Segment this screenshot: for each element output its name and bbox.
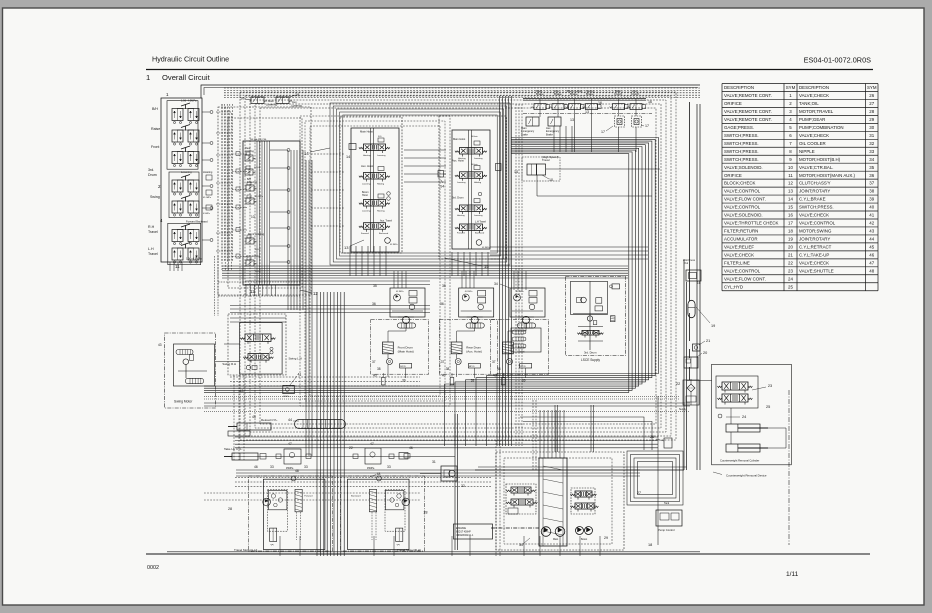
bank12 sol 4 [246, 198, 254, 204]
item 44 capsule [295, 420, 346, 429]
svg-text:Swing R.H: Swing R.H [222, 362, 236, 366]
dashed verticals below swing [233, 375, 235, 460]
boom hoist motor circle [518, 316, 534, 318]
svg-text:38: 38 [497, 367, 501, 371]
long bottom double line [167, 551, 700, 553]
svg-text:VALVE;CHECK: VALVE;CHECK [724, 252, 754, 257]
svg-text:43: 43 [158, 343, 162, 347]
svg-text:21: 21 [706, 339, 710, 343]
Travel Motor(R.H) dashdot outer [341, 476, 425, 551]
swing supply lines [216, 361, 240, 363]
pilot valve travel fwd/back [172, 230, 183, 242]
svg-text:Travel: Travel [148, 230, 158, 234]
svg-text:LSCE Supply: LSCE Supply [581, 358, 600, 362]
svg-text:MP#D: MP#D [400, 366, 406, 368]
svg-text:Boost: Boost [581, 538, 587, 541]
svg-text:35: 35 [869, 165, 874, 170]
svg-text:SWITCH;PRESS.: SWITCH;PRESS. [724, 157, 759, 162]
svg-text:Front: Front [151, 145, 159, 149]
mid dashed rects [300, 116, 450, 406]
svg-text:37: 37 [372, 360, 376, 364]
svg-text:GAGE;PRESS.: GAGE;PRESS. [724, 125, 754, 130]
svg-text:PUMP;COMBINATION: PUMP;COMBINATION [799, 125, 844, 130]
svg-text:3rd. Drum: 3rd. Drum [584, 351, 597, 355]
bank13 check [385, 238, 391, 244]
travel hs connector [546, 168, 660, 170]
cw check 24 [718, 414, 722, 418]
bank12 right stubs [270, 149, 287, 151]
bank A left small ports [232, 153, 247, 155]
solenoid valve 10 main lowering [251, 97, 264, 104]
svg-text:16: 16 [598, 101, 602, 105]
svg-text:SYM: SYM [867, 85, 877, 90]
svg-text:OIL COOLER: OIL COOLER [799, 141, 826, 146]
svg-text:45.1MPa: 45.1MPa [482, 247, 491, 249]
valve 47a [284, 449, 301, 464]
svg-text:50L/min: 50L/min [471, 136, 478, 138]
svg-text:48: 48 [377, 472, 381, 476]
svg-text:17: 17 [601, 130, 605, 134]
pilot valve LH travel [172, 248, 183, 260]
svg-text:Holding: Holding [245, 149, 254, 153]
svg-text:PUMP;GEAR: PUMP;GEAR [799, 117, 825, 122]
svg-text:ORIFICE: ORIFICE [724, 173, 742, 178]
parts table [722, 83, 878, 85]
svg-text:16: 16 [648, 100, 652, 104]
svg-text:Backward: Backward [351, 495, 361, 498]
bank12 internal riser bundle [256, 141, 258, 285]
bank12 sol 2 [245, 169, 253, 175]
right pump valve group [571, 488, 595, 514]
svg-text:19: 19 [711, 324, 715, 328]
svg-text:VALVE;REMOTE CONT.: VALVE;REMOTE CONT. [724, 93, 772, 98]
svg-text:BLOCK;CHECK: BLOCK;CHECK [724, 181, 756, 186]
svg-text:Supply: Supply [679, 408, 687, 411]
swing solenoid [246, 365, 250, 369]
svg-text:45.1MPa: 45.1MPa [390, 244, 399, 246]
Travel Motor(L.H) inner dashed verticals [295, 512, 297, 540]
front drum capsule [397, 323, 415, 328]
brake dashdot line [523, 113, 652, 115]
svg-text:45.1MPa: 45.1MPa [255, 196, 264, 198]
svg-text:45: 45 [869, 245, 874, 250]
svg-text:Drum: Drum [148, 173, 157, 177]
pump unit dashed box 30 [496, 452, 624, 550]
svg-text:17: 17 [788, 221, 793, 226]
reload cylinder 45 [237, 423, 271, 430]
svg-text:/1984/2000min-1: /1984/2000min-1 [456, 535, 474, 537]
front drum valve box [390, 288, 425, 317]
svg-text:SWITCH;PRESS.: SWITCH;PRESS. [724, 141, 759, 146]
Travel Motor(L.H) check on top [291, 476, 296, 481]
mid horizontal bundle above motors [222, 265, 628, 267]
svg-text:36: 36 [440, 302, 444, 306]
counterweight removal outer box [712, 364, 792, 465]
svg-text:37: 37 [869, 181, 874, 186]
svg-text:VALVE;CONTROL: VALVE;CONTROL [799, 221, 836, 226]
svg-text:SWITCH;PRESS.: SWITCH;PRESS. [724, 133, 759, 138]
svg-text:44: 44 [869, 237, 874, 242]
pilot signal bus horizontal top [224, 87, 700, 89]
svg-text:VALVE;CHECK: VALVE;CHECK [799, 213, 829, 218]
Travel Motor(L.H) inner box [267, 489, 287, 531]
dashed horizontals left of bundle y380 [230, 376, 420, 378]
svg-text:24: 24 [788, 276, 793, 281]
front drum brake box [400, 364, 412, 369]
svg-text:41: 41 [869, 213, 874, 218]
bottom distribution verticals [279, 536, 281, 556]
throttle check boxes 17 [615, 116, 625, 127]
svg-text:12: 12 [250, 289, 255, 294]
svg-text:33: 33 [869, 149, 874, 154]
swing valve dashed box [228, 314, 286, 375]
svg-text:SWITCH;PRESS.: SWITCH;PRESS. [799, 205, 834, 210]
Travel Motor(R.H) solid box [348, 479, 410, 549]
svg-text:MOTOR;HOIST(B.H): MOTOR;HOIST(B.H) [799, 157, 841, 162]
center vertical bundle [316, 292, 318, 556]
svg-text:11: 11 [175, 264, 180, 269]
bank A to bank B horizontals [311, 153, 344, 155]
pilot valve 3rd drum [172, 180, 183, 192]
svg-text:Pump Control: Pump Control [658, 528, 675, 532]
svg-text:3rd Holding: 3rd Holding [246, 254, 260, 258]
svg-text:Hoisting: Hoisting [363, 154, 371, 157]
svg-text:32: 32 [461, 484, 465, 488]
bottom right horizontals [475, 469, 684, 471]
svg-text:39: 39 [402, 379, 406, 383]
Travel Motor(R.H) check on top [377, 476, 382, 481]
pump control box [656, 510, 682, 526]
boom hoist pressure switch 40 [502, 377, 506, 385]
LSCE solenoid circle [581, 297, 587, 303]
svg-text:CLUTCH;ASS'Y: CLUTCH;ASS'Y [799, 181, 831, 186]
svg-text:38: 38 [869, 189, 874, 194]
swing motor dashdot box [165, 333, 216, 408]
brake cluster top rail [523, 98, 646, 100]
svg-text:Backward: Backward [379, 232, 389, 235]
svg-text:Hoist: Hoist [518, 350, 525, 354]
svg-text:45: 45 [252, 415, 256, 419]
boom hoist capsule [517, 323, 535, 328]
LSCE supply dashdot box [566, 277, 626, 356]
svg-text:46: 46 [254, 465, 258, 469]
svg-text:SYM: SYM [786, 85, 796, 90]
svg-text:Brake: Brake [554, 92, 562, 96]
svg-text:SOL: SOL [378, 136, 382, 138]
svg-text:48: 48 [869, 268, 874, 273]
dashed vertical pair x533 [532, 400, 534, 470]
svg-text:Overall Circuit: Overall Circuit [162, 73, 211, 82]
svg-text:VALVE;CONTROL: VALVE;CONTROL [724, 189, 761, 194]
svg-text:15: 15 [788, 205, 793, 210]
svg-text:0.5MPa: 0.5MPa [203, 213, 211, 215]
pilot valve front [172, 152, 183, 164]
horizontal bundle low [235, 436, 658, 438]
svg-text:VALVE;SOLENOID.: VALVE;SOLENOID. [724, 165, 763, 170]
Travel Motor(L.H) valve block [269, 490, 287, 509]
svg-text:21: 21 [788, 252, 793, 257]
svg-text:45.1MPa: 45.1MPa [396, 291, 405, 293]
svg-text:Lowering: Lowering [474, 214, 483, 217]
svg-text:11: 11 [788, 173, 793, 178]
svg-text:48: 48 [295, 469, 299, 473]
fitting 46a [260, 454, 266, 460]
svg-text:13: 13 [788, 189, 793, 194]
svg-text:20: 20 [788, 245, 793, 250]
control valve bank 13 outer dashed [340, 117, 402, 253]
svg-text:25: 25 [788, 284, 793, 289]
control valve bank 13 frame [351, 128, 399, 252]
svg-text:Front Holding: Front Holding [248, 232, 265, 236]
line filter 22 [683, 380, 699, 405]
pilot bottom stubs [169, 262, 171, 271]
svg-text:VALVE;CHECK: VALVE;CHECK [799, 133, 829, 138]
pilot valve swing [172, 201, 183, 213]
svg-text:28: 28 [424, 511, 428, 515]
rear drum brake box [468, 364, 480, 369]
front drum clutch circle [387, 359, 393, 365]
svg-text:1/11: 1/11 [786, 571, 799, 578]
svg-text:VALVE;CONTROL: VALVE;CONTROL [724, 205, 761, 210]
svg-text:33: 33 [304, 465, 308, 469]
svg-text:VALVE;THROTTLE CHECK: VALVE;THROTTLE CHECK [724, 221, 779, 226]
svg-text:13: 13 [344, 245, 349, 250]
svg-text:Brake: Brake [536, 92, 544, 96]
emergency valve internals [532, 117, 534, 126]
svg-text:42: 42 [869, 221, 874, 226]
fitting 33a [276, 454, 281, 459]
svg-text:25: 25 [766, 405, 770, 409]
long dashdot vertical right [788, 390, 790, 545]
travel high speed solenoid 10 [527, 164, 537, 175]
svg-text:R.H: R.H [148, 225, 155, 229]
svg-text:40: 40 [869, 205, 874, 210]
svg-text:29: 29 [869, 117, 874, 122]
swing valve 1 [245, 334, 271, 341]
drum top feed verticals [393, 271, 395, 288]
svg-text:19: 19 [788, 237, 793, 242]
svg-text:VALVE;CHECK: VALVE;CHECK [799, 260, 829, 265]
control valve bank 12 frame [243, 141, 300, 285]
nested supply rects around banks [330, 103, 510, 265]
dashed horizontals into swing area [218, 281, 300, 283]
svg-text:Raise: Raise [151, 127, 160, 131]
svg-text:30: 30 [519, 543, 523, 547]
svg-text:37: 37 [441, 360, 445, 364]
svg-text:28: 28 [228, 507, 232, 511]
svg-text:VALVE;CHECK: VALVE;CHECK [799, 93, 829, 98]
svg-text:22: 22 [788, 260, 793, 265]
small fitting 26 [664, 438, 672, 448]
svg-text:Hoist: Hoist [362, 194, 368, 197]
bank12 bottom ports [245, 285, 247, 296]
right supply riser pair [696, 104, 698, 470]
svg-text:45.1MPa: 45.1MPa [516, 291, 525, 293]
svg-text:C.Y.L;RETRACT: C.Y.L;RETRACT [799, 245, 832, 250]
verticals from bank B down [349, 246, 351, 276]
svg-text:Forward: Forward [304, 495, 313, 498]
boom hoist drum pedestal [503, 342, 514, 354]
svg-text:Brake: Brake [570, 92, 578, 96]
svg-text:Aux. Hoist: Aux. Hoist [452, 159, 464, 163]
svg-text:3rd.: 3rd. [148, 168, 154, 172]
svg-text:31: 31 [869, 133, 874, 138]
svg-text:Brake: Brake [586, 92, 594, 96]
Travel Motor(L.H) hatch strip [295, 489, 302, 511]
verticals into pump top [539, 410, 541, 452]
left vertical bundle x500 [499, 96, 501, 446]
pump right concentric rects [627, 451, 683, 505]
fitting row line [230, 456, 455, 458]
svg-text:45MPa: 45MPa [286, 468, 294, 470]
brake drop verticals [553, 126, 555, 152]
svg-text:SWITCH;PRESS.: SWITCH;PRESS. [724, 149, 759, 154]
svg-text:Swing L.H: Swing L.H [289, 356, 302, 360]
left pump valve group [506, 484, 536, 514]
cw valve 23 [716, 376, 758, 408]
Travel Motor(R.H) motor circle [402, 498, 410, 506]
dashed pair right of travel RH [495, 440, 497, 556]
svg-text:47: 47 [869, 260, 874, 265]
svg-text:L.H: L.H [148, 247, 154, 251]
top supply double line [201, 85, 700, 98]
svg-text:Lowering: Lowering [457, 181, 466, 184]
svg-text:Holding: Holding [377, 184, 385, 186]
LSCE inner box [571, 281, 608, 314]
boom hoist extra stack [511, 328, 541, 352]
svg-text:Clutch: Clutch [614, 92, 623, 96]
bank13 internal riser pair [370, 128, 372, 252]
svg-text:C.Y.L;TAKE-UP: C.Y.L;TAKE-UP [799, 252, 829, 257]
svg-text:32: 32 [869, 141, 874, 146]
relief cluster right of pilots [202, 111, 210, 113]
svg-text:VALVE;SHUTTLE: VALVE;SHUTTLE [799, 268, 834, 273]
right vertical bus bundle staggered corners [497, 138, 659, 447]
svg-text:16: 16 [788, 213, 793, 218]
rear drum pressure switch 40 [450, 377, 454, 385]
Travel Motor(R.H) inner box [385, 489, 405, 531]
svg-text:Main Hoist: Main Hoist [453, 137, 466, 141]
svg-text:Hoisting: Hoisting [377, 210, 385, 213]
svg-text:31: 31 [432, 460, 436, 464]
svg-text:Brake: Brake [546, 132, 553, 136]
svg-text:(High Speed): (High Speed) [542, 155, 559, 159]
svg-text:Main Hoist: Main Hoist [360, 130, 373, 134]
header rule [146, 69, 873, 71]
svg-text:41: 41 [298, 373, 302, 377]
horizontal dotted rows [204, 396, 680, 398]
LSCE rows [573, 313, 607, 315]
check valve 31 32 assembly [441, 466, 457, 481]
svg-text:Swing Motor: Swing Motor [174, 400, 193, 404]
svg-text:(Aux. Hoist): (Aux. Hoist) [466, 350, 482, 354]
accumulator 19 [688, 300, 695, 317]
svg-text:SOL.7: SOL.7 [255, 249, 262, 251]
svg-text:CYL;HYD: CYL;HYD [724, 284, 743, 289]
pilot signal bus vertical [221, 104, 223, 262]
fitting 22c [353, 454, 358, 459]
svg-text:(Main Hoist): (Main Hoist) [398, 350, 414, 354]
svg-text:VALVE;SOLENOID.: VALVE;SOLENOID. [724, 213, 763, 218]
svg-text:Aux.: Aux. [292, 100, 298, 104]
svg-text:MP#D: MP#D [469, 366, 475, 368]
Travel Motor(L.H) solid box [263, 479, 325, 549]
check valve 21 [693, 344, 701, 351]
svg-text:45MPa: 45MPa [367, 468, 375, 470]
pilot aux symbols column [206, 175, 212, 180]
svg-text:13: 13 [570, 118, 574, 122]
svg-text:Reload CYL.: Reload CYL. [261, 418, 278, 422]
svg-text:Forward: Forward [457, 231, 465, 234]
rear drum dashdot enclosure [439, 320, 497, 375]
pump circles [541, 527, 551, 537]
svg-text:35: 35 [442, 284, 446, 288]
swing relief 41 [283, 385, 295, 393]
svg-text:26: 26 [869, 93, 874, 98]
svg-text:10: 10 [240, 97, 244, 101]
svg-text:18: 18 [648, 543, 652, 547]
svg-text:33: 33 [387, 465, 391, 469]
cw cylinder 2 [726, 444, 760, 452]
svg-text:Backward: Backward [475, 231, 485, 234]
svg-text:Aux. Travel: Aux. Travel [380, 220, 392, 223]
pilot valve raise [172, 130, 183, 142]
swing motor capsule [176, 350, 193, 355]
svg-text:DESCRIPTION: DESCRIPTION [724, 85, 754, 90]
rear drum valve box [459, 288, 494, 317]
footer rule [146, 553, 870, 555]
control valve bank 15 outer dashed [439, 116, 506, 259]
svg-text:Lowering: Lowering [377, 154, 386, 157]
svg-text:24: 24 [742, 415, 746, 419]
Travel Motor(L.H) motor circle [263, 498, 271, 506]
cw cylinder 1 [726, 424, 760, 432]
pump connecting shaft [491, 527, 539, 529]
boom hoist clutch circle [507, 359, 513, 365]
svg-text:Swing: Swing [150, 195, 160, 199]
front drum motor circle [398, 316, 414, 318]
svg-text:Aux. Hoist: Aux. Hoist [361, 164, 374, 168]
control valve bank 15 frame [452, 130, 490, 249]
rear drum motor circle [467, 316, 483, 318]
svg-text:DR PAL(P2) PBL: DR PAL(P2) PBL [250, 138, 267, 141]
svg-text:NIPPLE: NIPPLE [799, 149, 815, 154]
rear drum drum pedestal [451, 342, 462, 354]
svg-text:23: 23 [768, 384, 772, 388]
LSCE top right fitting [612, 284, 620, 289]
svg-text:20: 20 [703, 351, 707, 355]
svg-text:Clutch: Clutch [631, 92, 640, 96]
svg-text:VALVE;FLOW CONT.: VALVE;FLOW CONT. [724, 197, 766, 202]
svg-text:Hoisting: Hoisting [203, 170, 213, 174]
Travel Motor(R.H) valve block [386, 490, 404, 509]
svg-text:ACCUMULATOR: ACCUMULATOR [724, 237, 758, 242]
svg-text:39: 39 [869, 197, 874, 202]
svg-text:16: 16 [697, 281, 701, 285]
fitting 46b [399, 453, 408, 460]
svg-text:14: 14 [788, 197, 793, 202]
svg-text:12: 12 [313, 291, 318, 296]
svg-text:VALVE;CONTROL: VALVE;CONTROL [724, 268, 761, 273]
svg-text:10: 10 [788, 165, 793, 170]
verticals x555 x591 [554, 405, 556, 452]
fitting 33b [306, 454, 311, 459]
svg-text:Hoisting: Hoisting [457, 214, 465, 217]
svg-text:Travel: Travel [148, 252, 158, 256]
Travel Motor(L.H) bottom valve [270, 528, 277, 541]
horizontal lines y305-315 [230, 305, 430, 307]
svg-text:Hydraulic Circuit Outline: Hydraulic Circuit Outline [152, 55, 229, 64]
